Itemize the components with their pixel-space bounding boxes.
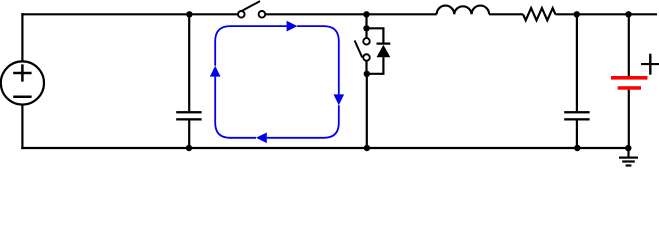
node B bottom junction: [186, 145, 192, 151]
node H bottom junction: [625, 145, 631, 151]
ground: [619, 148, 638, 167]
node C top junction: [363, 11, 369, 17]
wire branch2 lower: [366, 74, 368, 148]
switch S2 (vertical, open): [355, 32, 370, 74]
wire left leg: [21, 13, 23, 149]
battery BT1: [611, 14, 648, 148]
wire top rail: [21, 13, 657, 15]
resistor R1: [523, 8, 555, 20]
current loop arrow (blue): [215, 26, 339, 138]
node F bottom junction: [574, 145, 580, 151]
wire bottom rail: [21, 147, 628, 149]
node G top junction: [625, 11, 631, 17]
switch S1 (top, open): [238, 1, 265, 18]
node A top junction: [186, 11, 192, 17]
node E top junction: [574, 11, 580, 17]
node D bottom junction: [364, 145, 370, 151]
capacitor C2: [564, 14, 589, 148]
wire branch2 upper: [365, 14, 367, 28]
node split: [363, 25, 369, 31]
voltage source V1: [1, 61, 44, 104]
inductor L1: [437, 6, 489, 15]
node merge: [364, 71, 370, 77]
diode D1: [367, 28, 391, 74]
capacitor C1: [176, 14, 201, 148]
label + battery polarity: [641, 54, 659, 75]
